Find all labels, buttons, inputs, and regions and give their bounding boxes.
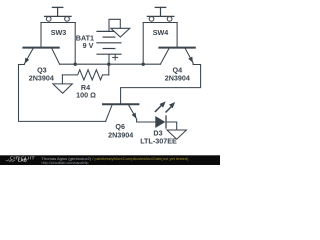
junction battery/R4-rail bbox=[107, 62, 110, 65]
wire SW3 left terminal to Q3 base bbox=[40, 23, 42, 47]
CircuitLab logo waveform bbox=[6, 160, 16, 162]
transistor Q6 2N3904 bbox=[103, 104, 138, 139]
svg-text:http://circuitlab.com/cauxh9p: http://circuitlab.com/cauxh9p bbox=[42, 161, 89, 165]
ground at battery negative bbox=[111, 28, 130, 37]
ground under R4 bbox=[53, 84, 72, 93]
transistor Q4 2N3904 bbox=[159, 48, 194, 83]
wire Q3 emitter loop to Q6 collector bbox=[19, 65, 106, 122]
junction SW3-rail bbox=[74, 62, 77, 65]
svg-text:9 V: 9 V bbox=[83, 41, 94, 50]
transistor Q3 2N3904 bbox=[19, 48, 60, 83]
wire SW3 right terminal to rail bbox=[74, 23, 76, 65]
svg-text:LTL-307EE: LTL-307EE bbox=[140, 137, 177, 146]
svg-text:2N3904: 2N3904 bbox=[29, 74, 54, 83]
resistor R4 100 ohm bbox=[62, 64, 108, 100]
svg-text:SW3: SW3 bbox=[51, 28, 67, 37]
wire Q6 emitter to LED anode bbox=[137, 119, 156, 122]
switch SW3 pushbutton bbox=[41, 7, 75, 37]
wire mid rail bbox=[60, 63, 161, 65]
footer bar bbox=[0, 155, 220, 165]
LED D3 triangle bbox=[155, 116, 165, 128]
wire LED cathode to ground bbox=[166, 122, 177, 130]
wire SW4 left terminal to rail bbox=[142, 23, 144, 65]
plus sign bbox=[113, 56, 118, 58]
ground at LED cathode bbox=[167, 130, 186, 139]
LED light arrow 2 bbox=[166, 106, 172, 112]
wire Q4 emitter to Q6 base bbox=[121, 63, 201, 103]
svg-text:2N3904: 2N3904 bbox=[165, 74, 190, 83]
wire battery negative to top ground bbox=[109, 19, 120, 31]
svg-text:LAB: LAB bbox=[18, 158, 27, 163]
wire SW4 right terminal to Q4 base bbox=[176, 23, 178, 47]
switch SW4 pushbutton bbox=[143, 7, 177, 37]
svg-text:100 Ω: 100 Ω bbox=[76, 91, 96, 100]
junction SW4-rail bbox=[142, 62, 145, 65]
LED cathode bar bbox=[165, 116, 167, 128]
svg-text:2N3904: 2N3904 bbox=[108, 131, 133, 140]
battery BAT1 9V bbox=[76, 31, 121, 64]
svg-text:SW4: SW4 bbox=[153, 28, 169, 37]
LED light arrow 1 bbox=[155, 106, 161, 112]
